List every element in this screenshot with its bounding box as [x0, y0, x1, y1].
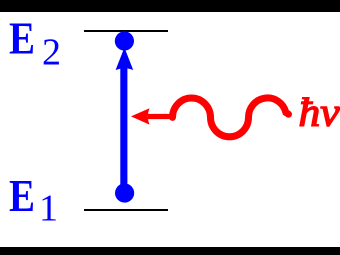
energy level E1 line: [84, 209, 168, 211]
energy level E2 line: [84, 30, 168, 32]
svg-text:1: 1: [39, 188, 58, 230]
svg-text:E: E: [9, 170, 35, 221]
photon arrowhead (left): [131, 108, 150, 124]
transition arrowhead (up): [116, 48, 134, 71]
photon squiggle wave: [173, 98, 289, 137]
transition arrow shaft: [120, 66, 127, 193]
top black bar: [0, 0, 340, 12]
svg-text:E: E: [9, 13, 35, 64]
svg-text:ħν: ħν: [299, 90, 340, 135]
photon squiggle stub: [148, 114, 174, 119]
lower state dot (E1): [115, 183, 134, 202]
svg-text:2: 2: [42, 32, 61, 74]
bottom black bar: [0, 247, 340, 255]
upper state dot (E2): [115, 31, 134, 50]
